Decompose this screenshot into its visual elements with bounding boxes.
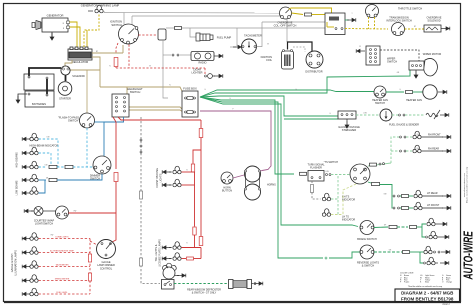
tail lamp 1 [162,246,171,250]
starter motor [58,82,72,96]
wire brown regulator to ignition switch bus [92,52,123,54]
radio [191,52,214,61]
svg-text:RH REAR: RH REAR [428,147,439,150]
svg-text:May be reproduced for personal: May be reproduced for personal use only [467,167,469,203]
wire horn interconnect [245,173,247,188]
brake lamp left [422,227,425,237]
overdrive col-off switch [280,7,292,19]
reverse lamp right [424,246,432,254]
svg-text:SPEEDOMETER: SPEEDOMETER [55,278,70,280]
high beam lamp 2 [22,165,31,169]
wire green relay output [345,19,349,21]
wire yellow generator F to regulator [70,27,81,49]
battery interconnect cable [46,79,48,95]
wire white dashed points [293,47,305,52]
svg-text:LIGHTS: LIGHTS [160,173,163,182]
bus white top 2 [132,15,287,17]
svg-text:DIAGRAM 2 - 64/67 MGB: DIAGRAM 2 - 64/67 MGB [401,291,454,296]
svg-text:COL.-OFF SWITCH: COL.-OFF SWITCH [274,24,297,28]
svg-text:WIPER MOTOR: WIPER MOTOR [423,52,442,56]
wire green fuse box feed wiper motor [200,70,410,97]
wire blue low beam bus [39,179,47,181]
defroster heating element [229,280,234,289]
RH TS indicator lamp [322,193,330,201]
wire horn button to horns [233,175,244,178]
svg-text:SWITCH: SWITCH [387,60,397,64]
svg-text:FROM BENTLEY B51798: FROM BENTLEY B51798 [401,296,454,301]
wire purple fuse box to horns [200,111,271,171]
wire red parking interconnect [194,172,196,185]
LH TS indicator lamp [322,209,330,217]
wire white fuse to fuse box [163,40,168,98]
horn 2 [245,184,261,200]
wire yellow green TS switch to LH indicator [343,184,356,215]
high-beam indicator lamp [22,137,31,141]
svg-text:SWITCH: SWITCH [375,101,385,105]
wire brown headlight switch to fuse box [129,107,183,110]
wire black dashed flasher pilot [311,181,313,184]
svg-text:www.advanceautowire.com: www.advanceautowire.com [463,173,466,198]
svg-text:FUEL GAUGE & SENDER: FUEL GAUGE & SENDER [389,123,419,127]
svg-text:CONTROL: CONTROL [100,267,113,270]
svg-text:"Read the solid/on car outline: "Read the solid/on car outlined it over … [408,285,442,288]
svg-text:"TS SWITCH: "TS SWITCH [324,161,339,164]
svg-text:LH REAR: LH REAR [427,192,438,195]
svg-text:FUEL LEVEL: FUEL LEVEL [56,292,67,294]
wire light green TS switch to RH lamps [368,163,391,166]
wire light green indicator vertical [337,176,339,215]
wire black wiper switch to motor [380,50,419,61]
svg-text:FUEL PUMP: FUEL PUMP [217,35,232,39]
svg-text:INDICATOR: INDICATOR [342,219,355,222]
battery 1 [24,74,54,90]
svg-text:THROTTLE SWITCH: THROTTLE SWITCH [398,7,422,11]
wire yellow regulator fourth lead [86,30,88,49]
LH front turn lamp [391,196,394,208]
svg-text:P: P [232,109,233,111]
LH rear turn lamp [393,195,395,197]
wire yellow overdrive bus [345,28,388,31]
wire green fuse box feed heater [200,90,374,97]
svg-text:RH FRONT: RH FRONT [428,133,441,136]
wire yellow interlock to overdrive solenoid [405,28,425,30]
battery cable solenoid to battery [29,68,61,76]
wire green fuse box to turn signal flasher [200,97,294,174]
wire light green flasher to TS switch [326,174,328,176]
dimmer switch [93,156,111,174]
svg-text:DISTRIBUTOR: DISTRIBUTOR [305,70,322,74]
svg-text:STABILIZER: STABILIZER [342,128,357,132]
wire light blue high beam bus to dimmer [39,166,47,168]
svg-text:HEATER FAN: HEATER FAN [406,98,422,102]
wire red main vertical to courtesy and gauge dimmer [113,117,116,169]
heater fan switch [374,86,386,98]
svg-text:INDICATOR: INDICATOR [342,199,355,202]
regulator [68,47,92,60]
wire red ignition accessory with fuse [116,43,118,54]
wire black coil to distributor [288,42,313,51]
illumination lamp SPEEDOMETER [22,279,31,283]
wire ignition switch top to bus [123,13,125,25]
illumination lamp AC PRESSURE/HTR TEMP [22,251,31,255]
fuel sender [426,113,438,117]
wire white tachometer to bus [257,22,263,47]
wire black dashed ground run [141,117,160,284]
wire blue flash-to-pass to dimmer feed [95,121,105,123]
wire red ignition to fuse 35A [139,34,158,36]
reverse lamp left [420,252,423,263]
rear window defroster [163,267,175,279]
reverse light switch [360,245,374,259]
brake switch [360,221,374,235]
svg-text:LIGHT/SWITCH: LIGHT/SWITCH [35,222,53,226]
bus white top 1 [104,12,279,15]
fuel pump [190,28,196,37]
svg-text:GENERATOR: GENERATOR [47,14,64,18]
ground generator [51,32,53,37]
wire purple horns feed [261,170,263,173]
gauge voltage stabilizer [338,111,356,119]
svg-text:AUTO-WIRE: AUTO-WIRE [462,231,474,281]
svg-text:SWITCH: SWITCH [111,23,122,27]
title block [395,289,460,302]
wire green fuse box to voltage stabilizer [200,96,338,116]
fuel gauge [380,109,392,121]
wire green fuse box to reverse lights [200,97,323,258]
wire light green stabilizer to fuel gauge [356,114,380,116]
front parking lamp 2 [162,183,171,187]
wire green heater switch to fan [386,91,404,93]
svg-text:BRAKE SWITCH: BRAKE SWITCH [357,237,377,241]
RH rear turn lamp [400,150,402,152]
overdrive relay box [325,13,345,35]
tail lamp 2 [162,257,171,261]
svg-text:BATTERIES: BATTERIES [32,102,46,106]
low beam lamp 2 [22,191,31,195]
wire green brake switch to lamps [374,226,388,229]
wire red lighting vertical bus [200,120,202,237]
wire yellow relay top loop [289,8,332,13]
svg-text:INTERLOCK SWITCH: INTERLOCK SWITCH [386,19,411,23]
svg-text:COLOR CODE: COLOR CODE [400,273,414,275]
svg-text:Orange: Orange [446,282,452,284]
svg-text:IGNITION: IGNITION [110,20,122,24]
front parking lamp 1 [162,170,171,174]
svg-text:SOLENOID: SOLENOID [72,75,85,78]
svg-text:RADIO: RADIO [198,61,206,65]
bus white top 4 with fuse [166,27,325,29]
wire brown regulator to solenoid [65,60,72,66]
RH front turn lamp [400,136,402,138]
svg-text:HIGH BEAMS: HIGH BEAMS [16,152,19,168]
svg-text:SWITCH": SWITCH" [68,119,79,123]
wire green dashed defroster to element [174,283,228,285]
svg-text:DOME LIGHTS: DOME LIGHTS [55,236,69,238]
throttle switch [366,5,379,18]
gauge lamp dimmer control [97,240,116,259]
wire light green fuel gauge to sender [392,114,398,116]
svg-text:FLASHER: FLASHER [310,166,322,170]
svg-text:COIL: COIL [266,58,273,62]
high beam lamp 1 [22,151,31,155]
wire red dashed ignition to accessories [128,45,130,69]
wire red parking to tail feed [194,185,196,227]
ground battery [18,94,27,100]
wire yellow generator D to regulator [70,22,78,49]
solenoid [61,66,70,75]
wire red illumination bus vertical [89,239,91,295]
svg-text:REGULATOR: REGULATOR [72,60,89,64]
svg-text:TACHOMETER: TACHOMETER [55,263,69,266]
wire yellow throttle switch legs [368,17,370,29]
svg-text:GP: GP [384,225,386,227]
wiper switch [356,49,365,53]
courtesy light switch [43,210,56,212]
courtesy map light [24,209,33,213]
wire green reverse switch to lamps [374,251,402,253]
wire red courtesy switch to red bus [69,212,117,214]
svg-text:LOW BEAMS: LOW BEAMS [16,180,19,195]
svg-text:& SWITCH - GT ONLY: & SWITCH - GT ONLY [192,292,217,295]
wire green TS switch to LH lamps [368,182,371,183]
svg-text:TACHOMETER: TACHOMETER [244,34,262,38]
svg-text:Purple: Purple [404,282,409,284]
wire brown solenoid to bus [70,69,100,71]
illumination lamp FUEL LEVEL [22,292,31,296]
svg-text:& SWITCH: & SWITCH [362,264,375,268]
low beam lamp 1 [22,178,31,182]
radio connectors [163,54,171,56]
svg-text:HORNS: HORNS [267,184,276,187]
wire light blue flash-to-pass to high beam bus [86,128,88,167]
illumination lamp DOME LIGHTS [22,237,31,241]
wire brown feed to flash-to-pass switch [86,70,88,113]
distributor [306,51,323,68]
svg-text:LH FRONT: LH FRONT [427,204,440,207]
svg-text:FUSE BOX: FUSE BOX [183,87,197,91]
fuse 35A box [158,29,166,40]
svg-text:sheet 2: sheet 2 [442,303,450,306]
ground stabilizer [346,119,348,121]
wire red headlight switch to lighting bus [118,117,201,120]
ground wiper motor [415,70,417,71]
wire red tail interconnect [200,248,202,259]
battery 2 [25,91,54,107]
wire red branch to parking lights [193,150,201,164]
svg-text:SOLENOID: SOLENOID [427,19,440,23]
svg-text:STARTER: STARTER [59,97,71,101]
wire brown bus to headlight switch and fuse box [100,87,127,94]
wire light blue indicator to bus [39,139,59,167]
svg-text:Slate: Slate [425,281,429,284]
wire yellow overdrive switch to relay [292,13,304,15]
heater fan [423,85,437,99]
wire white coil feed [286,16,288,42]
wire green flasher feed resistor [300,172,307,175]
wire red tail resistor [199,237,203,246]
svg-text:SWITCH: SWITCH [130,90,141,94]
svg-text:BUTTON: BUTTON [222,189,232,192]
illumination lamp TACHOMETER [22,265,31,269]
svg-text:LIGHTER: LIGHTER [191,71,202,75]
wire green fuse box to brake switch [200,97,358,227]
battery terminals [28,76,30,78]
wire yellow warning lamp to regulator [84,15,99,50]
bus white top 3 [262,21,325,23]
brake lamp right [422,224,426,227]
svg-text:AC PRESSURE/HTR TEMP: AC PRESSURE/HTR TEMP [50,249,74,252]
wire brown regulator lower bus [92,57,100,87]
wire blue headlight switch to dimmer [104,117,124,156]
defroster switch [162,280,175,290]
battery cable solenoid to starter [65,75,67,81]
svg-text:ILLUMINATION LAMPS: ILLUMINATION LAMPS [15,250,18,276]
svg-text:LICENSE PLATE LAMPS: LICENSE PLATE LAMPS [159,239,162,267]
horn 1 [245,166,261,182]
horn button [221,172,233,184]
